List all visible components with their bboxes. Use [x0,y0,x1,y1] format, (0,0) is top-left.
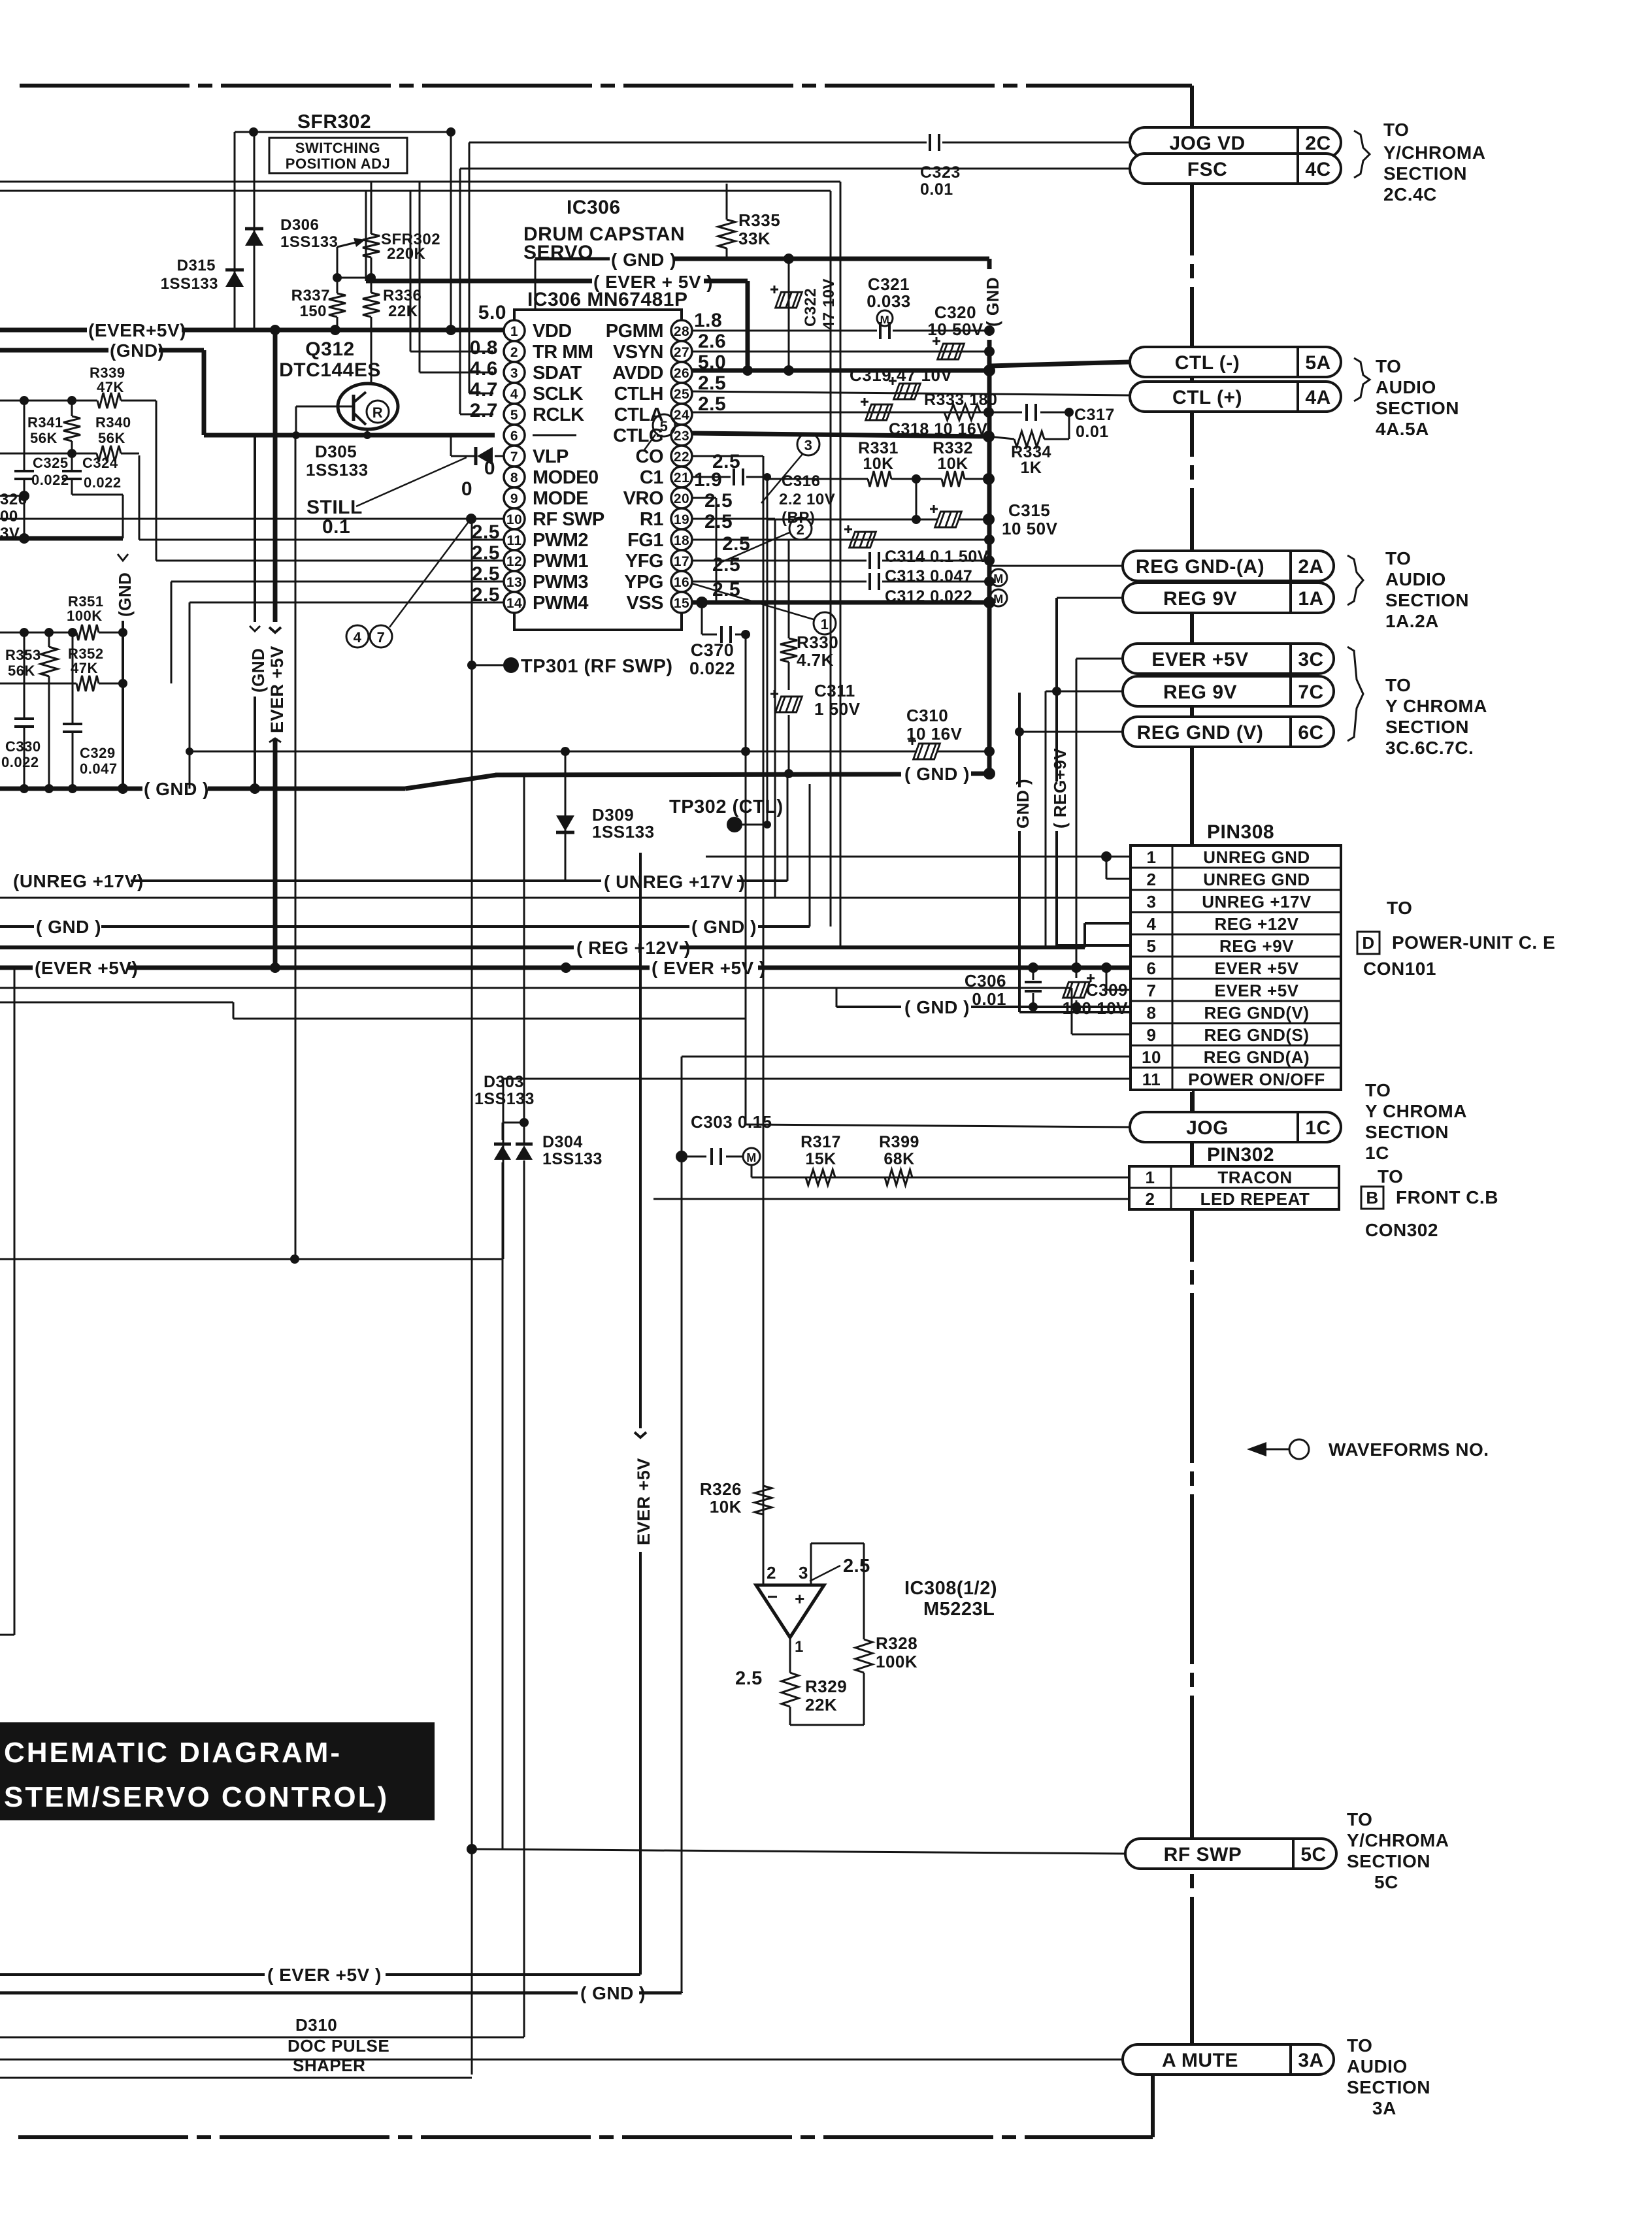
diode D303 [502,1123,504,1140]
svg-text:2: 2 [510,345,518,360]
capacitor C311 1 50V [788,662,790,690]
diode D304 [516,1145,533,1160]
svg-text:TO: TO [1347,2035,1372,2056]
svg-text:D303: D303 [484,1073,524,1091]
wire pin14 PWM4 [190,602,504,604]
svg-text:4C: 4C [1305,159,1330,180]
svg-text:VRO: VRO [623,488,663,509]
wire GND step [202,350,206,435]
svg-text:R353: R353 [5,647,41,663]
svg-text:21: 21 [674,470,689,485]
svg-text:CTL (-): CTL (-) [1175,352,1240,374]
wire FG1 line [692,539,989,541]
wire PGMM line [692,330,877,332]
svg-text:R335: R335 [738,210,780,230]
svg-text:4A.5A: 4A.5A [1376,419,1429,439]
wire to REG GND(V) [1019,731,1123,733]
svg-text:EVER +5V: EVER +5V [1151,649,1248,670]
svg-text:19: 19 [674,512,689,527]
svg-text:D306: D306 [280,216,319,234]
capacitor C320 10 50V [938,344,965,359]
resistor R335 33K [726,184,728,220]
wire YPG line [692,581,867,583]
svg-text:2.6: 2.6 [698,331,726,352]
wire VSYN line [692,351,989,353]
svg-text:EVER +5V: EVER +5V [267,646,287,733]
svg-text:0.022: 0.022 [689,659,735,678]
svg-text:SDAT: SDAT [533,363,582,384]
svg-text:M: M [746,1151,757,1164]
callout circle 1 [814,612,836,634]
wire CTLG thick [692,433,989,436]
svg-text:1: 1 [1147,847,1157,867]
svg-text:R399: R399 [879,1133,919,1151]
svg-text:UNREG GND: UNREG GND [1203,847,1310,867]
svg-text:( REG+9V: ( REG+9V [1050,748,1070,829]
svg-text:REG 9V: REG 9V [1163,681,1237,703]
diode D305 [495,455,504,457]
wire thin y1374 [0,897,1131,899]
brace AUDIO 4A5A [1354,358,1370,401]
flag CTL(+) 4A [1130,382,1341,412]
svg-text:1C: 1C [1365,1143,1389,1163]
svg-text:22K: 22K [388,303,418,320]
svg-text:28: 28 [674,324,689,339]
svg-text:REG GND-(A): REG GND-(A) [1136,556,1264,578]
wire row10 REG GND(A) long [682,1056,1131,1058]
svg-text:SHAPER: SHAPER [293,2056,365,2075]
capacitor C318 10 16V [866,404,893,420]
svg-text:C330: C330 [5,738,41,755]
svg-text:3: 3 [804,437,813,453]
resistor R339 47K [97,393,121,408]
resistor R331 10K [868,471,891,487]
page border top (dash-dot) [20,84,1192,88]
svg-text:1.8: 1.8 [694,310,722,331]
svg-text:VSYN: VSYN [613,342,663,363]
svg-text:10K: 10K [937,455,968,473]
svg-text:5: 5 [1147,936,1157,956]
box SWITCHING POSITION ADJ [269,138,407,173]
svg-text:2C: 2C [1305,133,1330,154]
svg-text:WAVEFORMS NO.: WAVEFORMS NO. [1329,1439,1489,1460]
wire GND rotated x188 [118,554,128,561]
bus REG+12V [0,945,574,949]
page border right vertical (dash-dot) [1190,86,1194,2065]
svg-text:00: 00 [0,508,18,525]
wire GND lower bracket [495,774,901,775]
capacitor C325 0.022 [24,401,25,471]
svg-text:FG1: FG1 [627,530,663,551]
svg-text:5A: 5A [1305,352,1330,374]
svg-text:5C: 5C [1300,1844,1326,1865]
wire R334 branch [989,436,1014,439]
svg-text:3A: 3A [1372,2098,1396,2118]
resistor R328 100K [863,1543,865,1639]
svg-text:VDD: VDD [533,321,572,342]
svg-text:R1: R1 [640,509,663,530]
wire GND rotated x390 [254,435,256,622]
wire TRACON line [752,1177,1129,1179]
svg-text:D: D [1362,933,1374,953]
svg-text:Y/CHROMA: Y/CHROMA [1347,1830,1449,1850]
wire YFG line [692,560,867,562]
svg-text:7: 7 [377,629,386,646]
flag REG GND(V) 6C [1123,717,1334,747]
wire CTLA line [692,412,1022,414]
svg-text:PWM3: PWM3 [533,572,588,593]
svg-text:1: 1 [510,324,518,339]
svg-text:TO: TO [1365,1080,1391,1100]
resistor R317 15K [806,1170,835,1185]
svg-text:7: 7 [1147,981,1157,1000]
svg-text:0.01: 0.01 [920,180,953,199]
svg-text:5: 5 [660,418,669,435]
svg-text:(GND: (GND [248,648,268,693]
pot SFR302 220K [363,234,380,257]
bus GND left thick y824 [0,536,123,541]
svg-text:1SS133: 1SS133 [306,460,369,480]
svg-text:1: 1 [1146,1168,1155,1187]
svg-text:R329: R329 [805,1677,847,1696]
svg-text:MODE: MODE [533,488,588,509]
wire R331 R332 line [767,478,868,480]
svg-text:1SS133: 1SS133 [474,1090,535,1108]
callout circles 4 7 [346,625,369,648]
svg-text:CHEMATIC DIAGRAM-: CHEMATIC DIAGRAM- [4,1737,342,1769]
GND right corner label [987,259,992,269]
capacitor C303 0.15 [676,1151,687,1162]
svg-text:( GND ): ( GND ) [904,997,970,1017]
wire JOG feed [745,751,747,1124]
svg-text:PIN308: PIN308 [1207,821,1274,843]
svg-text:20: 20 [674,491,689,506]
svg-text:2: 2 [797,521,805,538]
svg-text:( GND ): ( GND ) [691,917,757,937]
svg-text:15: 15 [674,596,689,611]
svg-text:R333 180: R333 180 [924,391,997,409]
svg-text:15K: 15K [805,1150,836,1168]
svg-text:A MUTE: A MUTE [1162,2050,1238,2071]
bus GND bottom [0,1992,578,1995]
svg-text:R326: R326 [700,1479,742,1499]
wire x239 step to pin12 [156,401,157,403]
svg-text:C310: C310 [906,706,948,725]
wire GND return x1043 [681,1057,683,1992]
svg-text:1A.2A: 1A.2A [1385,611,1439,631]
svg-text:CON101: CON101 [1363,959,1436,979]
svg-text:100K: 100K [876,1652,917,1671]
svg-text:TO: TO [1378,1166,1403,1187]
wire R351 line y968 [0,632,76,634]
wire vertical SFR node right [450,132,452,330]
wire pin13 PWM3 [171,581,504,583]
svg-text:TP302 (CTL): TP302 (CTL) [669,796,784,817]
svg-text:1: 1 [795,1638,804,1656]
wire LED REPEAT line [653,1198,1129,1200]
wire to FSC [460,168,1130,170]
svg-text:C316: C316 [782,472,820,490]
svg-text:EVER +5V: EVER +5V [1214,959,1298,978]
callout circle 2 [789,517,812,540]
svg-text:Y/CHROMA: Y/CHROMA [1383,142,1485,163]
svg-text:6: 6 [510,429,518,444]
wire V6 x722 [471,519,473,2075]
svg-text:REG +12V: REG +12V [1214,914,1298,934]
svg-text:1K: 1K [1021,459,1042,477]
svg-text:150: 150 [299,303,327,320]
svg-text:12: 12 [506,554,522,569]
svg-text:2: 2 [1146,1189,1155,1209]
wire vert x451 [295,435,297,1259]
svg-text:C303 0.15: C303 0.15 [691,1112,772,1132]
svg-text:4: 4 [1147,914,1157,934]
svg-text:C311: C311 [814,681,855,700]
svg-text:RCLK: RCLK [533,404,584,425]
svg-text:JOG VD: JOG VD [1169,133,1245,154]
svg-text:Y CHROMA: Y CHROMA [1385,696,1487,716]
svg-text:C329: C329 [80,745,116,761]
svg-text:3A: 3A [1298,2050,1323,2071]
capacitor C321 0.033 [879,322,882,339]
svg-text:PWM1: PWM1 [533,551,588,572]
wire Q312 emitter [367,429,369,435]
junction dot GND bus [784,254,794,264]
svg-text:0.022: 0.022 [1,754,39,770]
svg-text:AUDIO: AUDIO [1347,2056,1408,2076]
svg-text:REG 9V: REG 9V [1163,588,1237,610]
wire y1927 [0,1258,503,1260]
wire to EVER+5V 3C [1076,658,1123,660]
diode D309 [565,751,567,881]
svg-text:( GND ): ( GND ) [904,764,970,784]
junction dots EVER+5V bus [270,325,280,335]
svg-text:PIN302: PIN302 [1207,1144,1274,1166]
svg-text:2.5: 2.5 [843,1556,870,1577]
svg-text:2.5: 2.5 [704,511,733,533]
svg-text:4.7K: 4.7K [797,650,834,670]
svg-text:C323: C323 [920,163,961,182]
wire RF SWP feed [472,1849,1125,1854]
wire VRO line [692,497,716,499]
svg-text:VSS: VSS [626,593,663,614]
IC306 left pins 1-14 [504,320,525,341]
svg-text:SECTION: SECTION [1385,717,1469,737]
svg-text:PGMM: PGMM [606,321,663,342]
wire PIN308 to JOG [1192,1090,1195,1112]
svg-text:C314 0.1 50V: C314 0.1 50V [885,548,989,566]
svg-text:M: M [993,572,1004,585]
svg-text:YPG: YPG [624,572,663,593]
svg-text:(GND: (GND [115,572,135,617]
wire row11 POWER feed [503,1078,1131,1080]
diode D315 [225,271,244,287]
capacitor C315 10 50V [767,519,938,521]
svg-text:56K: 56K [98,430,125,446]
resistor R399 68K [885,1170,912,1185]
svg-text:AUDIO: AUDIO [1376,377,1436,397]
svg-text:0.033: 0.033 [867,291,911,311]
svg-text:56K: 56K [30,430,58,446]
bus EVER+5V bottom [0,1973,265,1976]
svg-text:TO: TO [1385,548,1411,568]
wire CTLH line [692,391,1130,395]
svg-text:5: 5 [510,408,518,423]
resistor R340 56K [97,446,121,461]
wire to REG 9V 1A [1057,597,1123,599]
wire GND vertical x1514 [987,340,992,774]
rail y1150 with C310 [190,751,916,753]
svg-text:( GND ): ( GND ) [611,250,676,270]
resistor R352 47K [72,632,74,683]
brace Y/CHROMA top [1354,131,1370,178]
svg-text:3C: 3C [1298,649,1323,670]
svg-text:C324: C324 [82,455,118,471]
svg-text:RF SWP: RF SWP [1164,1844,1242,1865]
bus EVER+5V left [0,328,87,333]
svg-text:( EVER +5V ): ( EVER +5V ) [267,1965,382,1985]
bus GND y1541 [836,1006,901,1008]
svg-text:M5223L: M5223L [923,1599,995,1620]
wire vertical D315 branch [234,132,236,330]
svg-text:( GND ): ( GND ) [144,779,209,799]
svg-text:27: 27 [674,345,689,360]
IC306 outline [514,310,682,630]
svg-text:2: 2 [1147,870,1157,889]
svg-text:STILL: STILL [306,497,363,518]
svg-text:4: 4 [354,629,362,646]
svg-text:REG GND(S): REG GND(S) [1204,1025,1310,1045]
svg-text:7C: 7C [1298,681,1323,703]
svg-text:FRONT C.B: FRONT C.B [1396,1187,1498,1207]
svg-text:EVER +5V: EVER +5V [1214,981,1298,1000]
svg-text:10 50V: 10 50V [1002,519,1058,538]
svg-text:0.022: 0.022 [84,474,122,491]
svg-text:13: 13 [506,575,522,590]
svg-text:2.5: 2.5 [704,490,733,512]
wire staircase y1534 [0,1002,233,1004]
svg-text:0.8: 0.8 [470,337,498,359]
wire pin12 PWM1 [156,560,504,562]
capacitor C309 100 10V [1076,968,1078,978]
svg-text:10K: 10K [863,455,893,473]
svg-text:1SS133: 1SS133 [280,233,338,251]
flag RF SWP 5C [1125,1839,1336,1869]
svg-text:JOG: JOG [1186,1117,1229,1139]
resistor R329 22K [782,1673,799,1707]
svg-text:DOC PULSE: DOC PULSE [288,2036,389,2056]
svg-text:24: 24 [674,408,689,423]
svg-text:POWER ON/OFF: POWER ON/OFF [1188,1070,1325,1089]
border corner stub [1151,2066,1155,2137]
svg-text:(EVER +5V): (EVER +5V) [35,958,138,978]
flag REG GND(A) 2A [1123,551,1334,581]
wire thin y1512 [0,987,1072,989]
svg-text:M: M [880,314,890,326]
svg-text:23: 23 [674,429,689,444]
wire pin6 GND thick [204,433,495,438]
capacitor C330 0.022 [24,632,25,719]
svg-text:SECTION: SECTION [1347,1851,1430,1871]
wire GND bracket to bus [535,257,610,261]
flag CTL(-) 5A [1130,347,1341,377]
svg-text:POSITION ADJ: POSITION ADJ [286,156,390,172]
svg-text:47K: 47K [97,379,124,395]
svg-text:MODE0: MODE0 [533,467,599,488]
wire VSS thick [692,600,989,605]
wire SFR302 node [235,131,451,133]
svg-text:C325: C325 [33,455,69,471]
svg-text:4: 4 [510,387,518,402]
svg-text:Y CHROMA: Y CHROMA [1365,1101,1467,1121]
svg-text:11: 11 [506,533,521,548]
svg-text:10 50V: 10 50V [927,320,983,339]
svg-text:1SS133: 1SS133 [542,1150,603,1168]
svg-text:( EVER + 5V ): ( EVER + 5V ) [593,272,713,292]
svg-text:2.2 10V: 2.2 10V [779,491,835,508]
bus GND y1418 [0,925,34,928]
svg-text:R317: R317 [801,1133,841,1151]
svg-text:25: 25 [674,387,689,402]
svg-text:2: 2 [767,1563,776,1583]
capacitor C329 0.047 [72,683,74,724]
svg-text:SECTION: SECTION [1347,2077,1430,2097]
svg-text:10 16V: 10 16V [906,724,963,744]
svg-text:C306: C306 [965,971,1006,991]
wires to pins 2-5 [410,191,412,352]
svg-text:FSC: FSC [1187,159,1228,180]
svg-text:1SS133: 1SS133 [592,822,655,842]
wire REG+9V vert label x1617 [1055,598,1058,781]
svg-text:R337: R337 [291,287,330,304]
svg-text:TP301 (RF SWP): TP301 (RF SWP) [521,656,673,677]
testpoint TP301 [472,664,511,666]
brace YCHROMA 3C6C7C [1347,647,1363,741]
svg-text:68K: 68K [884,1150,914,1168]
flag REG 9V 1A [1123,583,1334,613]
resistor R334 1K [1014,431,1044,447]
capacitor C322 47 10V [788,259,790,370]
svg-text:6: 6 [1147,959,1157,978]
svg-text:47K: 47K [71,660,98,676]
svg-text:10: 10 [1142,1047,1161,1067]
svg-text:2.5: 2.5 [735,1668,763,1689]
svg-text:C1: C1 [640,467,663,488]
svg-text:D310: D310 [295,2015,337,2035]
svg-text:R340: R340 [95,414,131,431]
svg-text:POWER-UNIT C. E: POWER-UNIT C. E [1392,932,1555,953]
IC306 right pins 28-15 [671,320,692,341]
svg-text:2A: 2A [1298,556,1323,578]
svg-text:CO: CO [636,446,664,467]
wire vertical left IC loop [365,191,367,281]
svg-text:56K: 56K [8,663,35,679]
wire V7 x802 [523,774,525,1143]
svg-text:1A: 1A [1298,588,1323,610]
svg-text:TO: TO [1387,898,1412,918]
svg-text:4A: 4A [1305,387,1330,408]
svg-text:( REG +12V ): ( REG +12V ) [576,938,691,958]
svg-text:0: 0 [461,478,472,500]
svg-text:IC306: IC306 [567,197,621,218]
capacitor C316 2.2 10V [733,468,735,485]
svg-text:REG +9V: REG +9V [1219,936,1294,956]
PIN308 row1-2 tie [1106,857,1108,879]
svg-text:C370: C370 [691,640,735,660]
svg-text:CTL (+): CTL (+) [1172,387,1242,408]
svg-text:11: 11 [1142,1070,1161,1089]
wire GND left entry [0,348,108,353]
